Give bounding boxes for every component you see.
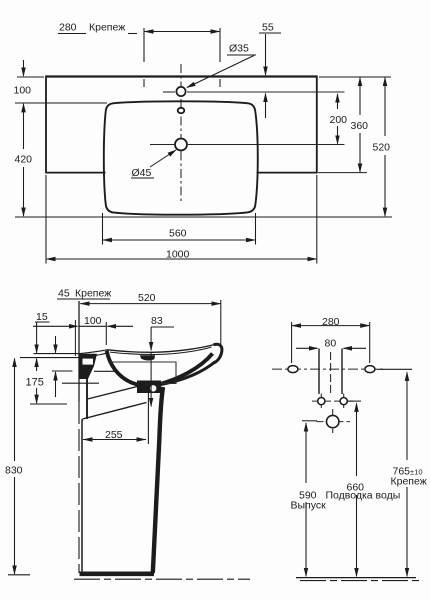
drain outlet horizontal centerline — [317, 421, 351, 423]
basin apron middle slant — [88, 383, 152, 399]
dim 100 side extension — [105, 322, 107, 345]
svg-text:Подводка воды: Подводка воды — [326, 490, 401, 502]
column centerline — [330, 352, 332, 395]
deck lower line — [20, 353, 108, 358]
left dim chain: top edge extension — [17, 76, 44, 78]
dim 830 floor extension — [8, 574, 30, 576]
column left edge — [318, 349, 320, 395]
dim 280 right extension — [219, 28, 221, 62]
line under bracket — [62, 382, 99, 384]
45 krepezh underline — [57, 298, 110, 300]
D45 leader arrow — [150, 150, 176, 167]
svg-text:420: 420 — [15, 154, 33, 166]
D35 underline — [227, 54, 256, 56]
dim 45 up arrow leg — [55, 372, 57, 397]
hidden cavity rectangle — [109, 362, 176, 384]
dim 1000 line — [46, 258, 317, 260]
left mounting hole — [288, 366, 298, 373]
D45 underline — [131, 177, 154, 179]
dim 660 extension — [348, 400, 361, 402]
basin apron back edge — [86, 378, 88, 419]
wall plane line upper — [78, 301, 80, 402]
dim 660 lower leg — [356, 495, 358, 576]
drain outlet circle — [327, 415, 339, 427]
dim 520 upper leg — [384, 78, 386, 136]
dim 590 upper leg — [305, 423, 307, 483]
dim 420 lower leg with down arrow — [23, 167, 25, 216]
faucet hole section notch — [140, 355, 155, 360]
drain outlet vertical centerline — [332, 409, 334, 433]
svg-text:Крепеж: Крепеж — [75, 288, 111, 300]
dim 45 down arrow leg — [55, 336, 57, 353]
15 underline — [35, 321, 50, 323]
dim 280 back left extension — [291, 322, 293, 363]
svg-text:520: 520 — [373, 142, 391, 154]
svg-text:360: 360 — [351, 120, 369, 132]
svg-text:830: 830 — [5, 465, 23, 477]
right wing front extension — [318, 172, 367, 174]
front edge line of countertop (420/520 extension) — [15, 216, 392, 218]
faucet hole centerline — [163, 91, 175, 93]
vertical centerline of sink — [180, 64, 182, 201]
front lip nose — [214, 344, 222, 363]
svg-text:520: 520 — [138, 292, 156, 304]
drain hole white center — [150, 385, 156, 391]
dim 765 extension from hole — [377, 368, 412, 370]
dim 55 lower leg with up arrow — [265, 94, 267, 119]
bowl back edge extension line (100 dim) — [15, 102, 107, 104]
svg-text:45: 45 — [58, 288, 70, 300]
wall plane line lower dashed — [78, 402, 80, 573]
55 underline — [259, 32, 281, 34]
left supply hole vertical tick — [320, 394, 322, 409]
dim 1000 left extension — [45, 175, 47, 264]
svg-text:Крепеж: Крепеж — [89, 22, 125, 34]
outer shell underside curve — [146, 362, 216, 388]
dim 280 krepezh line — [144, 31, 220, 33]
outlet pipe left line / 255 extension — [147, 391, 149, 444]
left supply hole — [318, 398, 325, 405]
dim 255 line — [83, 439, 146, 441]
svg-text:255: 255 — [105, 429, 123, 441]
dim 100 side left arrow — [33, 325, 78, 327]
wall second line (15 gap) — [74, 320, 76, 356]
dim 765 upper leg — [406, 372, 408, 460]
ground dashed line right — [300, 580, 422, 582]
mounting bracket blob — [79, 354, 97, 379]
dim 15 down arrow leg — [36, 322, 38, 353]
dash after Krepezh — [128, 33, 137, 35]
basin apron bottom slant — [83, 403, 147, 420]
dim 280 left extension — [143, 28, 145, 62]
svg-text:15: 15 — [36, 311, 48, 323]
ground dashed line left — [74, 578, 250, 580]
dim 520 side right extension — [220, 300, 222, 345]
dim 175 down arrow leg — [36, 388, 38, 403]
dim 360 lower leg — [359, 133, 361, 172]
dim 100 side right arrow — [108, 325, 134, 327]
pedestal base — [80, 571, 155, 576]
dim 830 upper leg — [14, 358, 16, 461]
D35 leader arrow — [187, 56, 254, 88]
svg-text:100: 100 — [84, 315, 102, 327]
dim 420 upper leg with up arrow — [23, 104, 25, 149]
deck top line — [34, 350, 107, 354]
dim 360 upper leg — [359, 78, 361, 115]
drain centerline continuation — [150, 352, 152, 386]
drain hole centerline — [150, 144, 174, 146]
280 underline — [58, 33, 86, 35]
back edge right extension — [319, 76, 391, 78]
bolt axis line right part — [94, 370, 118, 372]
svg-text:Крепеж: Крепеж — [391, 476, 427, 488]
drain hole D45 — [175, 139, 187, 151]
svg-text:280: 280 — [59, 22, 77, 34]
bolt axis line — [52, 370, 73, 372]
countertop right edge — [316, 76, 318, 174]
svg-text:Выпуск: Выпуск — [291, 500, 327, 512]
countertop back edge — [46, 75, 318, 77]
svg-text:175: 175 — [26, 377, 44, 389]
back view floor line — [296, 577, 416, 579]
dim 560 right extension — [255, 213, 257, 245]
dim 83 leg with down arrow — [150, 327, 152, 350]
svg-text:100: 100 — [14, 85, 32, 97]
dim 1000 right extension — [316, 175, 318, 264]
drain fitting blob — [137, 381, 161, 394]
svg-text:83: 83 — [151, 315, 163, 327]
dim 200 upper leg — [337, 94, 339, 109]
dim 560 line — [103, 239, 256, 241]
dim 520 lower leg — [384, 155, 386, 216]
dim 80 left arrow — [296, 347, 318, 349]
dim 830 lower leg — [14, 477, 16, 574]
dim 280 back line — [292, 325, 370, 327]
column right edge — [341, 349, 343, 395]
pedestal left edge — [81, 419, 83, 573]
svg-text:Ø45: Ø45 — [132, 167, 152, 179]
left wing front edge — [46, 172, 106, 174]
bowl section curve — [107, 351, 213, 386]
dim 200 lower leg — [337, 126, 339, 144]
right mounting hole — [365, 366, 375, 373]
bracket white slot — [83, 359, 94, 365]
supply holes centerline horizontal — [312, 400, 354, 402]
dim 55 upper leg with down arrow — [265, 34, 267, 75]
dim 660 upper leg — [356, 403, 358, 476]
right wing front edge — [257, 172, 318, 174]
svg-text:200: 200 — [330, 114, 348, 126]
faucet hole D35 — [176, 87, 185, 96]
svg-text:80: 80 — [325, 338, 337, 350]
rim top edge — [107, 345, 214, 353]
svg-text:280: 280 — [322, 316, 340, 328]
svg-text:55: 55 — [262, 22, 274, 34]
dim 175 up arrow leg — [36, 359, 38, 371]
countertop left edge — [45, 76, 47, 174]
right supply hole vertical tick — [343, 394, 345, 409]
pedestal front edge — [153, 387, 163, 573]
dim 590 lower leg — [305, 502, 307, 576]
svg-text:560: 560 — [169, 228, 187, 240]
svg-text:1000: 1000 — [166, 249, 190, 261]
rim top second line — [110, 347, 212, 355]
dim 520 side line — [80, 303, 221, 305]
right supply hole — [340, 398, 347, 405]
dim 590 extension — [302, 420, 317, 422]
dim 280 back right extension — [369, 322, 371, 363]
dim 100 upper leg — [23, 60, 25, 76]
dim 765 lower leg — [406, 487, 408, 576]
bowl outline — [104, 101, 258, 214]
dim 560 left extension — [102, 213, 104, 245]
mounting holes centerline — [272, 368, 385, 370]
dim 83 horizontal line — [151, 326, 174, 328]
svg-text:Ø35: Ø35 — [229, 43, 249, 55]
overflow hole — [178, 108, 185, 113]
outlet pipe right line with down arrow — [150, 386, 152, 406]
dim 175 bottom extension — [30, 403, 67, 405]
dim 80 right arrow — [344, 347, 367, 349]
